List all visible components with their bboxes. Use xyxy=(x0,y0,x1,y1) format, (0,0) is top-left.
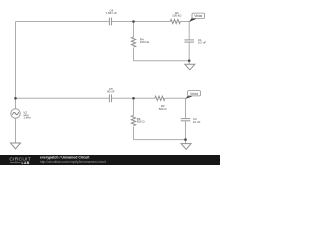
svg-text:500 Ω: 500 Ω xyxy=(137,120,146,124)
resistor R4 xyxy=(131,37,135,47)
wire C1 column top xyxy=(188,22,190,40)
junction upper ground rail / C1 xyxy=(188,59,191,62)
wire middle rail mid segment xyxy=(112,97,155,99)
footer bar xyxy=(0,155,220,165)
svg-text:80 nF: 80 nF xyxy=(107,90,115,94)
footer logo CircuitLab xyxy=(9,157,31,165)
capacitor C2 xyxy=(181,119,191,121)
wire upper ground rail xyxy=(134,60,190,62)
ground (lower right) xyxy=(181,144,191,150)
wire top rail left segment xyxy=(16,21,109,23)
capacitor C1 xyxy=(184,40,194,42)
svg-text:0.2 nF: 0.2 nF xyxy=(198,41,206,45)
voltage source V2 xyxy=(11,109,20,118)
wire R6 column bottom xyxy=(133,127,135,140)
junction top rail / R4 xyxy=(132,20,135,23)
resistor R3 xyxy=(170,19,180,23)
svg-text:http://circuitlab.com/c/mp8y5e: http://circuitlab.com/c/mp8y5e/unnamed-c… xyxy=(40,160,106,164)
svg-text:Vbias: Vbias xyxy=(194,14,202,18)
svg-text:Vmid: Vmid xyxy=(190,92,198,96)
wire middle rail right segment xyxy=(165,97,186,99)
capacitor C4 xyxy=(109,18,111,26)
junction bottom rail / C2 xyxy=(184,138,187,141)
svg-text:LAB: LAB xyxy=(22,161,30,165)
wire top rail right segment xyxy=(180,21,189,23)
wire V2 bottom lead xyxy=(15,118,17,143)
wire V2 top lead xyxy=(15,98,17,109)
svg-text:100 kΩ: 100 kΩ xyxy=(172,14,182,18)
wire bottom rail xyxy=(134,139,186,141)
node flag Vbias xyxy=(189,13,205,22)
junction middle rail / left column xyxy=(14,97,17,100)
ground (upper right) xyxy=(185,64,195,70)
junction middle rail / R6 xyxy=(132,97,135,100)
wire C2 column top xyxy=(185,98,187,118)
wire R4 column top xyxy=(133,22,135,38)
resistor R2 xyxy=(155,96,165,100)
svg-text:100 kΩ: 100 kΩ xyxy=(140,40,150,44)
ground (source) xyxy=(11,143,21,149)
node flag Vmid xyxy=(185,91,200,99)
capacitor C5 xyxy=(109,94,111,102)
wire C2 column bottom xyxy=(185,121,187,144)
wire C1 column bottom xyxy=(188,42,190,64)
svg-text:500 Ω: 500 Ω xyxy=(159,107,168,111)
svg-text:1 kHz: 1 kHz xyxy=(23,116,31,120)
wire top rail mid segment xyxy=(112,21,170,23)
wire R4 column bottom xyxy=(133,48,135,61)
wire middle rail left segment xyxy=(16,97,109,99)
svg-text:10 nF: 10 nF xyxy=(193,120,201,124)
resistor R6 xyxy=(131,116,135,126)
svg-text:7.667 nF: 7.667 nF xyxy=(106,11,118,15)
wire R6 column top xyxy=(133,98,135,115)
wire left column xyxy=(15,22,17,109)
